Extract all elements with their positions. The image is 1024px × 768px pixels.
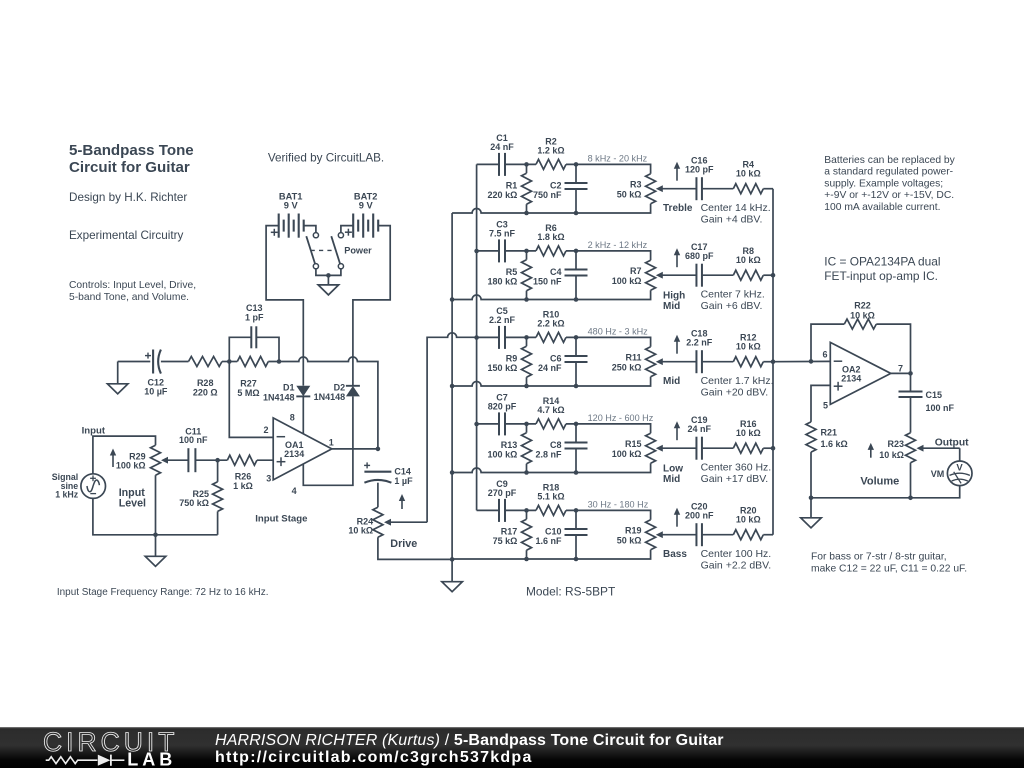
wire R7 wiper	[656, 272, 697, 279]
capacitor C18 2.2 nF	[696, 350, 702, 373]
C17 label	[685, 242, 714, 261]
wire C6 lead bottom	[575, 362, 577, 386]
svg-text:Gain +2.2 dBV.: Gain +2.2 dBV.	[701, 560, 772, 572]
resistor R8 10 kΩ	[733, 270, 763, 280]
wire OA1 pin4 to D2	[303, 396, 353, 485]
row1 freq range	[588, 153, 648, 163]
svg-text:1N4148: 1N4148	[263, 392, 295, 402]
potentiometer R3 50 kΩ	[646, 174, 656, 204]
wire R19 wiper	[656, 531, 697, 538]
resistor R5 180 kΩ	[522, 260, 532, 291]
wire R24 wiper feed to filter bus (hops gnd bus)	[427, 333, 477, 522]
potentiometer R24 10k drive	[373, 507, 383, 537]
node input bus row tap y251	[474, 249, 479, 254]
diode D2 1N4148	[346, 386, 360, 397]
wire R3 wiper	[656, 185, 697, 192]
wire R25 top lead	[217, 460, 219, 482]
ground input stage	[145, 535, 166, 567]
svg-text:Center 7 kHz.: Center 7 kHz.	[701, 288, 765, 300]
R4 label	[736, 160, 761, 179]
wire R9 leads	[526, 337, 528, 346]
C7 label	[488, 392, 517, 411]
node output bus tap y361.7	[771, 359, 776, 364]
capacitor C15 100nF	[899, 391, 923, 397]
R16 label	[736, 419, 761, 438]
svg-text:Mid: Mid	[663, 474, 680, 485]
wire R29 bottom lead	[155, 475, 157, 535]
svg-text:Center 360 Hz.: Center 360 Hz.	[701, 461, 772, 473]
svg-text:HARRISON RICHTER (Kurtus) / 5-: HARRISON RICHTER (Kurtus) / 5-Bandpass T…	[215, 732, 724, 749]
subtitle design-by	[69, 191, 187, 204]
svg-text:480 Hz - 3 kHz: 480 Hz - 3 kHz	[588, 326, 649, 336]
wire input top	[93, 436, 156, 474]
node B R27/C13 right	[277, 359, 282, 364]
wire row4 bottom	[452, 463, 650, 472]
svg-text:100 kΩ: 100 kΩ	[488, 450, 518, 460]
svg-text:100 kΩ: 100 kΩ	[116, 460, 146, 470]
svg-text:V: V	[956, 463, 963, 474]
wire BAT1 to switch SW1	[304, 226, 316, 233]
wire R17 lead bottom	[526, 550, 528, 559]
battery BAT1	[279, 214, 304, 238]
node OA2 output	[908, 371, 913, 376]
row3 freq range	[588, 326, 649, 336]
wire output to VM	[959, 448, 961, 461]
capacitor C7 820 pF	[499, 412, 505, 435]
R7 label	[612, 266, 642, 286]
svg-text:Output: Output	[935, 438, 969, 449]
svg-text:R11: R11	[625, 353, 641, 363]
node output bus tap y275.2	[771, 273, 776, 278]
wire row3 bottom	[452, 377, 650, 386]
resistor R12 10 kΩ	[733, 357, 763, 367]
node row2 bottom shunt C	[574, 297, 579, 302]
svg-text:Experimental Circuitry: Experimental Circuitry	[69, 229, 183, 242]
wire row5 R to pot	[566, 510, 651, 519]
node row3 top shunt R	[524, 335, 529, 340]
R25 label	[179, 489, 209, 508]
svg-text:100 nF: 100 nF	[926, 403, 955, 413]
R6 label	[537, 223, 564, 242]
potentiometer R7 100 kΩ	[646, 260, 656, 290]
svg-text:250 kΩ: 250 kΩ	[612, 362, 642, 372]
capacitor C4 150 nF	[565, 269, 588, 275]
wire R12 to output bus	[763, 361, 773, 363]
svg-text:Design by H.K. Richter: Design by H.K. Richter	[69, 191, 187, 204]
model note	[526, 585, 615, 599]
capacitor C8 2.8 nF	[565, 442, 588, 448]
svg-text:R5: R5	[506, 267, 518, 277]
svg-text:10 kΩ: 10 kΩ	[736, 169, 761, 179]
node row1 bottom shunt C	[574, 211, 579, 216]
node output bus tap y448.2	[771, 446, 776, 451]
capacitor C6 24 nF	[565, 356, 588, 362]
wire R13 lead bottom	[526, 464, 528, 473]
node ground bus tap y386	[450, 384, 455, 389]
svg-text:C13: C13	[246, 303, 263, 313]
node row1 top shunt C	[574, 162, 579, 167]
wire filter output bus	[772, 189, 774, 535]
wire BAT1 positive to V+ drop	[266, 226, 303, 386]
wire row5 bottom	[452, 550, 650, 559]
wire C20 to R20	[702, 534, 733, 536]
capacitor C17 680 pF	[696, 264, 702, 287]
potentiometer R23 10k volume	[906, 433, 916, 463]
svg-text:Center 100 Hz.: Center 100 Hz.	[701, 548, 772, 560]
BAT2 plus sign	[345, 229, 352, 236]
node row4 bottom shunt C	[574, 470, 579, 475]
svg-text:Model: RS-5BPT: Model: RS-5BPT	[526, 585, 615, 599]
wire row2 cap to R	[505, 250, 536, 252]
resistor R4 10 kΩ	[733, 184, 763, 194]
svg-text:220 Ω: 220 Ω	[193, 387, 218, 397]
capacitor C3 7.5 nF	[499, 239, 505, 262]
svg-text:820 pF: 820 pF	[488, 401, 517, 411]
svg-text:R9: R9	[506, 353, 518, 363]
svg-text:Input Stage Frequency Range: 7: Input Stage Frequency Range: 72 Hz to 16…	[57, 587, 269, 598]
svg-text:Volume: Volume	[860, 475, 899, 487]
svg-text:7.5 nF: 7.5 nF	[489, 228, 516, 238]
svg-text:Center 1.7 kHz.: Center 1.7 kHz.	[701, 375, 774, 387]
wire rail to OA1 output node (hops V+ V-)	[268, 357, 378, 449]
ground power switch	[318, 275, 339, 295]
Input Level label	[119, 487, 146, 509]
wire row1 bottom	[452, 204, 650, 213]
op-amp OA2 name	[841, 365, 861, 384]
node row1 top shunt R	[524, 162, 529, 167]
controls note	[69, 280, 196, 303]
svg-text:750 nF: 750 nF	[533, 190, 562, 200]
band name Mid	[663, 376, 680, 387]
subtitle experimental	[69, 229, 183, 242]
resistor R14 4.7 kΩ	[536, 419, 566, 429]
svg-text:2 kHz - 12 kHz: 2 kHz - 12 kHz	[588, 240, 648, 250]
node row3 top shunt C	[574, 335, 579, 340]
svg-text:100 mA available current.: 100 mA available current.	[824, 202, 940, 213]
potentiometer R19 50 kΩ	[646, 520, 656, 550]
ground OA2	[801, 498, 822, 528]
wire row4 cap to R	[505, 423, 536, 425]
resistor R22 10k	[844, 319, 876, 329]
signal source SG1 sine	[81, 474, 106, 499]
svg-text:1.8 kΩ: 1.8 kΩ	[537, 232, 564, 242]
svg-text:2.2 kΩ: 2.2 kΩ	[537, 319, 564, 329]
wire row1 top left	[477, 163, 499, 165]
wire R8 to output bus	[763, 274, 773, 276]
svg-text:1: 1	[329, 438, 334, 448]
svg-text:1N4148: 1N4148	[314, 392, 346, 402]
ic note	[824, 254, 940, 283]
arrow R11 direction	[674, 335, 680, 354]
svg-text:120 pF: 120 pF	[685, 165, 714, 175]
R17 label	[493, 526, 518, 546]
capacitor C2 750 nF	[565, 183, 588, 189]
svg-text:10 kΩ: 10 kΩ	[879, 450, 904, 460]
wire R17 leads	[526, 510, 528, 519]
node ground bus tap y299.5	[450, 297, 455, 302]
band name Bass	[663, 549, 687, 560]
resistor R10 2.2 kΩ	[536, 332, 566, 342]
verified note	[268, 151, 384, 164]
svg-text:10 µF: 10 µF	[144, 386, 168, 396]
node row4 top shunt C	[574, 422, 579, 427]
svg-text:Controls: Input Level, Drive,: Controls: Input Level, Drive,	[69, 280, 196, 291]
node input bus row tap y424	[474, 422, 479, 427]
svg-text:For bass or 7-str / 8-str guit: For bass or 7-str / 8-str guitar,	[811, 552, 947, 563]
svg-text:1 µF: 1 µF	[394, 476, 413, 486]
wire row3 R to pot	[566, 337, 651, 346]
svg-text:C6: C6	[550, 353, 562, 363]
row2 freq range	[588, 240, 648, 250]
R23 label	[879, 439, 904, 460]
C3 label	[489, 219, 516, 238]
node bottom rail R21	[809, 496, 814, 501]
C11 label	[179, 426, 208, 445]
svg-text:Center 14 kHz.: Center 14 kHz.	[701, 202, 771, 214]
Input Stage label	[255, 513, 307, 524]
resistor R28 220ohm	[189, 357, 223, 367]
wire C8 lead bottom	[575, 448, 577, 472]
svg-text:3: 3	[266, 474, 271, 484]
svg-text:10 kΩ: 10 kΩ	[348, 526, 373, 536]
R10 label	[537, 309, 564, 328]
wire row3 top left	[477, 336, 499, 338]
wire node A down to OA1 pin2	[229, 362, 273, 438]
svg-text:Drive: Drive	[390, 538, 417, 550]
svg-text:Circuit for Guitar: Circuit for Guitar	[69, 159, 190, 176]
node A R28/R27/C13/pin2	[227, 359, 232, 364]
resistor R25 750k	[213, 482, 223, 512]
svg-text:C15: C15	[926, 390, 943, 400]
svg-text:R21: R21	[821, 428, 838, 438]
svg-text:1 kΩ: 1 kΩ	[233, 481, 253, 491]
wire R23 bottom	[910, 463, 912, 498]
svg-text:100 kΩ: 100 kΩ	[612, 276, 642, 286]
potentiometer R15 100 kΩ	[646, 433, 656, 463]
resistor R2 1.2 kΩ	[536, 159, 566, 169]
node row3 bottom shunt C	[574, 384, 579, 389]
wire filter input bus	[476, 164, 478, 510]
R11 label	[612, 353, 642, 373]
svg-text:Power: Power	[344, 245, 372, 255]
svg-text:50 kΩ: 50 kΩ	[617, 535, 642, 545]
ground C12	[107, 362, 128, 394]
C16 label	[685, 156, 714, 175]
node row5 bottom shunt R	[524, 557, 529, 562]
svg-text:R3: R3	[630, 180, 642, 190]
svg-text:2.2 nF: 2.2 nF	[686, 338, 713, 348]
wire VM bottom	[811, 486, 960, 498]
svg-text:C14: C14	[394, 467, 411, 477]
svg-text:4.7 kΩ: 4.7 kΩ	[537, 405, 564, 415]
R14 label	[537, 396, 564, 415]
wire C11 to node C	[195, 459, 227, 461]
capacitor C12 10uF polarized	[153, 350, 161, 374]
svg-text:Level: Level	[119, 498, 146, 510]
node row2 bottom shunt R	[524, 297, 529, 302]
R20 label	[736, 506, 761, 525]
svg-text:Gain +17 dBV.: Gain +17 dBV.	[701, 473, 769, 485]
wire C17 to R8	[702, 274, 733, 276]
arrow R3 direction	[674, 162, 680, 181]
R8 label	[736, 246, 761, 265]
capacitor C13 1pF	[251, 326, 256, 348]
wire SW2 bottom to ground node	[328, 269, 341, 276]
svg-text:1 pF: 1 pF	[245, 312, 264, 322]
wire feedback up	[811, 324, 844, 361]
svg-text:10 kΩ: 10 kΩ	[736, 342, 761, 352]
svg-text:7: 7	[898, 363, 903, 373]
footer bar	[0, 727, 1024, 768]
wire R9 lead bottom	[526, 377, 528, 386]
wire BAT2 negative to V- drop	[353, 226, 390, 386]
R29 label	[116, 452, 146, 471]
wire OA2 pin5 to R21	[811, 385, 830, 422]
wire C6 lead top	[575, 337, 577, 356]
svg-text:Gain +6 dBV.: Gain +6 dBV.	[701, 300, 763, 312]
wire R23 wiper	[917, 445, 960, 452]
band name High Mid	[663, 291, 685, 313]
wire OA1 output	[332, 448, 378, 450]
op-amp OA1	[273, 418, 332, 480]
wire row2 R to pot	[566, 251, 651, 260]
arrow R15 direction	[674, 421, 680, 440]
node row3 bottom shunt R	[524, 384, 529, 389]
svg-text:Verified by CircuitLAB.: Verified by CircuitLAB.	[268, 151, 384, 164]
capacitor C19 24 nF	[696, 437, 702, 460]
svg-text:Low: Low	[663, 464, 683, 475]
node row1 bottom shunt R	[524, 211, 529, 216]
svg-text:5.1 kΩ: 5.1 kΩ	[537, 492, 564, 502]
wire C8 lead top	[575, 424, 577, 443]
R22 label	[850, 301, 875, 321]
arrow R24 drive	[399, 494, 405, 509]
arrow R7 direction	[674, 248, 680, 267]
svg-text:R19: R19	[625, 526, 642, 536]
svg-text:http://circuitlab.com/c3grch53: http://circuitlab.com/c3grch537kdpa	[215, 749, 533, 766]
row2 center/gain note	[701, 288, 765, 312]
batteries note	[824, 155, 955, 213]
svg-text:make C12 = 22 uF, C11 = 0.22 u: make C12 = 22 uF, C11 = 0.22 uF.	[811, 564, 967, 575]
capacitor C10 1.6 nF	[565, 529, 588, 535]
svg-text:9 V: 9 V	[284, 200, 299, 210]
input stage freq range note	[57, 587, 269, 598]
svg-text:1.6 kΩ: 1.6 kΩ	[821, 439, 848, 449]
resistor R21 1.6k	[806, 422, 816, 452]
capacitor C11 100nF	[188, 448, 195, 472]
CircuitLab logo	[43, 727, 178, 768]
resistor R17 75 kΩ	[522, 519, 532, 550]
wire C2 lead bottom	[575, 189, 577, 213]
capacitor C20 200 nF	[696, 523, 702, 546]
wire C16 to R4	[702, 188, 733, 190]
svg-text:R17: R17	[501, 526, 518, 536]
resistor R1 220 kΩ	[522, 173, 532, 204]
svg-text:D2: D2	[334, 382, 346, 392]
wire OA2 output	[891, 372, 911, 374]
svg-text:2134: 2134	[284, 449, 304, 459]
wire R13 leads	[526, 424, 528, 433]
svg-text:180 kΩ: 180 kΩ	[488, 277, 518, 287]
svg-text:supply. Example voltages;: supply. Example voltages;	[824, 178, 943, 189]
R2 label	[537, 136, 564, 155]
svg-text:C2: C2	[550, 180, 562, 190]
wire R1 lead bottom	[526, 204, 528, 213]
svg-text:+-9V or +-12V or +-15V, DC.: +-9V or +-12V or +-15V, DC.	[824, 190, 954, 201]
capacitor C1 24 nF	[499, 153, 505, 176]
node row2 top shunt C	[574, 249, 579, 254]
capacitor C14 1uF polarized	[364, 472, 391, 483]
wire R11 wiper	[656, 358, 697, 365]
signal source labels	[52, 472, 79, 500]
wire R21 bottom	[810, 452, 812, 498]
R5 label	[488, 267, 518, 287]
C14 plus sign	[364, 462, 370, 468]
potentiometer R29 100k	[151, 445, 161, 475]
R3 label	[617, 180, 642, 200]
wire row2 bottom	[452, 290, 650, 299]
R12 label	[736, 333, 761, 352]
svg-text:Gain +20 dBV.: Gain +20 dBV.	[701, 387, 769, 399]
svg-text:270 pF: 270 pF	[488, 488, 517, 498]
wire C19 to R16	[702, 447, 733, 449]
row3 center/gain note	[701, 375, 774, 399]
title text	[69, 142, 194, 176]
C5 label	[489, 306, 516, 325]
wire C14 bottom to R24	[377, 483, 379, 508]
wire C4 lead bottom	[575, 275, 577, 299]
wire R5 lead bottom	[526, 291, 528, 300]
C4 label	[533, 267, 562, 287]
wire row5 cap to R	[505, 509, 536, 511]
wire C10 lead bottom	[575, 535, 577, 559]
svg-text:Bass: Bass	[663, 549, 687, 560]
wire input bottom rail	[93, 498, 218, 534]
svg-text:1.2 kΩ: 1.2 kΩ	[537, 146, 564, 156]
svg-text:LAB: LAB	[127, 749, 176, 768]
svg-text:5-Bandpass Tone: 5-Bandpass Tone	[69, 142, 194, 159]
wire row3 cap to R	[505, 336, 536, 338]
wire row4 top left	[477, 423, 499, 425]
svg-text:100 nF: 100 nF	[179, 435, 208, 445]
svg-text:200 nF: 200 nF	[685, 511, 714, 521]
switch gang dashed link	[311, 249, 337, 251]
svg-text:Input Stage: Input Stage	[255, 513, 307, 524]
wire output node down to C15	[910, 373, 912, 391]
C6 label	[538, 353, 562, 373]
wire R1 leads	[526, 164, 528, 173]
wire C15 to R23	[910, 397, 912, 433]
R24 label	[348, 516, 373, 535]
svg-text:5: 5	[823, 400, 828, 410]
wire R29 wiper to C11	[161, 457, 188, 464]
arrow R23 volume	[868, 443, 874, 458]
svg-text:High: High	[663, 291, 685, 302]
svg-text:Input: Input	[82, 425, 106, 436]
node C C11/R25/R26	[215, 458, 220, 463]
VM label	[931, 469, 945, 479]
wire row5 top left	[477, 509, 499, 511]
resistor R16 10 kΩ	[733, 443, 763, 453]
C10 label	[535, 526, 562, 546]
svg-text:100 kΩ: 100 kΩ	[612, 449, 642, 459]
svg-text:2134: 2134	[841, 373, 861, 383]
wire R5 leads	[526, 251, 528, 260]
C20 label	[685, 502, 714, 521]
bass note	[811, 552, 967, 575]
voltmeter VM	[947, 461, 972, 486]
svg-text:2: 2	[263, 425, 268, 435]
